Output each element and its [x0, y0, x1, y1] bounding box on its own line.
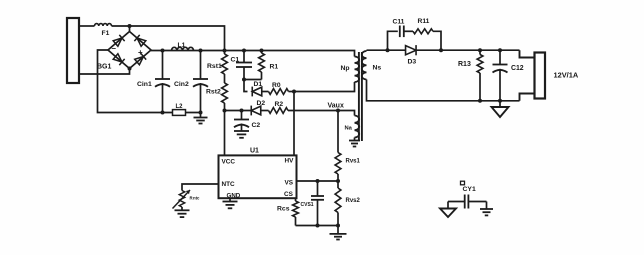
wire VCC row — [225, 110, 252, 112]
svg-text:C2: C2 — [252, 122, 261, 129]
diode D1 — [252, 87, 262, 97]
diode D2 — [251, 106, 261, 116]
resistor R11 — [413, 29, 441, 50]
resistor Rvs1 — [335, 111, 341, 182]
wire secondary bottom — [367, 80, 520, 101]
wire CS ground rail — [296, 225, 339, 227]
resistor R2 — [261, 108, 288, 114]
node drain junction — [292, 90, 296, 94]
svg-text:12V/1A: 12V/1A — [554, 71, 579, 80]
wire Np bottom to drain node — [294, 82, 355, 92]
svg-text:Rvs2: Rvs2 — [346, 198, 361, 204]
thermistor Rntc — [173, 190, 191, 209]
capacitor Cin2 — [193, 51, 208, 113]
inductor L1 — [172, 47, 194, 50]
wire clamp bottom — [244, 79, 262, 81]
svg-text:R11: R11 — [418, 18, 430, 25]
node AC-bridge junction — [128, 24, 132, 28]
transformer auxiliary Naux — [355, 116, 360, 138]
svg-text:NTC: NTC — [222, 181, 236, 188]
svg-text:Rvs1: Rvs1 — [346, 159, 361, 165]
svg-text:D3: D3 — [408, 59, 417, 66]
svg-text:U1: U1 — [250, 148, 259, 155]
ground right of CY1 — [480, 202, 493, 216]
wire HV column — [293, 92, 295, 156]
svg-text:Vaux: Vaux — [328, 102, 344, 109]
svg-text:R2: R2 — [275, 101, 284, 108]
wire bridge top stub — [129, 26, 131, 32]
capacitor C11 snubber — [388, 26, 414, 51]
connector J1 (AC input) — [67, 18, 79, 83]
bridge rectifier BG1 — [108, 32, 151, 69]
fuse F1 — [95, 24, 112, 26]
transformer secondary Ns — [362, 51, 367, 80]
resistor Rst1 — [222, 51, 228, 84]
svg-text:C12: C12 — [511, 65, 524, 72]
wire DC+ rail — [151, 51, 355, 57]
resistor R0 — [262, 89, 294, 95]
node Vaux-Rvs1 — [336, 109, 340, 113]
svg-text:C11: C11 — [393, 19, 405, 26]
ground under Cin2 — [194, 113, 208, 124]
wire secondary top — [367, 49, 406, 51]
inductor L2 (bead) — [173, 110, 186, 116]
bridge diode bottom-right — [134, 53, 146, 65]
op-amp U1 controller box — [219, 155, 297, 198]
svg-text:R ntc: R ntc — [190, 196, 201, 201]
svg-text:GND: GND — [227, 193, 241, 200]
svg-text:–: – — [112, 44, 117, 53]
resistor Rcs — [293, 198, 299, 225]
node VCC junction — [223, 109, 227, 113]
transformer core — [358, 52, 360, 141]
svg-text:Rst2: Rst2 — [206, 89, 221, 96]
svg-text:C1: C1 — [231, 57, 240, 64]
svg-text:Rst1: Rst1 — [207, 63, 222, 70]
svg-text:D1: D1 — [254, 81, 263, 88]
capacitor C2 — [234, 111, 249, 138]
wire clamp to D1 — [244, 80, 248, 92]
wire AC line top — [79, 25, 95, 27]
bridge diode bottom-left — [113, 53, 125, 65]
wire VCC column — [224, 111, 226, 156]
wire VS net — [297, 180, 339, 182]
wire Vaux rail — [288, 111, 355, 116]
svg-text:CS: CS — [284, 191, 294, 198]
wire D3 to output — [416, 49, 519, 51]
svg-text:L1: L1 — [178, 42, 186, 49]
svg-text:BG1: BG1 — [97, 64, 112, 71]
wire fuse to Rst1 column — [112, 26, 225, 51]
svg-text:Np: Np — [341, 65, 350, 72]
node rail-Rst1 — [223, 49, 227, 53]
svg-text:F1: F1 — [102, 30, 110, 37]
ground main — [330, 233, 347, 235]
wire bridge negative to ground rail — [98, 50, 201, 113]
diode D3 — [406, 45, 417, 55]
chassis ground under C12 — [492, 101, 509, 117]
connector output 12V — [520, 50, 546, 101]
svg-text:L2: L2 — [176, 104, 184, 110]
capacitor C12 — [493, 50, 508, 101]
ground Naux — [349, 138, 360, 147]
capacitor CVS1 — [311, 181, 324, 226]
svg-text:R0: R0 — [272, 82, 281, 89]
svg-text:VS: VS — [285, 179, 294, 186]
svg-text:Rcs: Rcs — [277, 206, 290, 213]
svg-text:CY1: CY1 — [463, 186, 476, 193]
bridge diode top-left — [113, 35, 125, 47]
svg-text:Ns: Ns — [373, 65, 382, 72]
transformer T1 primary Np — [355, 57, 360, 83]
svg-text:Cin1: Cin1 — [137, 81, 152, 88]
resistor Rvs2 — [335, 181, 341, 234]
ground under Rntc — [175, 207, 190, 217]
bridge diode top-right — [134, 35, 146, 47]
svg-text:CVS1: CVS1 — [301, 202, 314, 208]
svg-text:D2: D2 — [257, 100, 266, 107]
svg-text:Cin2: Cin2 — [174, 81, 189, 88]
resistor R1 — [259, 51, 265, 80]
resistor R13 — [477, 50, 483, 101]
capacitor CY1 — [448, 195, 487, 209]
svg-text:VCC: VCC — [222, 158, 236, 165]
capacitor C1 — [236, 51, 252, 80]
wire AC line bottom — [79, 69, 130, 75]
node bridge bottom — [128, 67, 132, 71]
svg-text:+: + — [138, 48, 143, 57]
svg-text:Na: Na — [345, 125, 353, 131]
capacitor Cin1 — [155, 51, 170, 113]
wire NTC pin — [182, 184, 219, 191]
svg-text:HV: HV — [285, 157, 295, 164]
svg-text:R13: R13 — [458, 61, 471, 68]
ground at GND pin — [223, 198, 238, 208]
chassis ground left of CY1 — [440, 202, 456, 218]
svg-text:R1: R1 — [270, 64, 279, 71]
resistor Rst2 — [222, 83, 228, 111]
